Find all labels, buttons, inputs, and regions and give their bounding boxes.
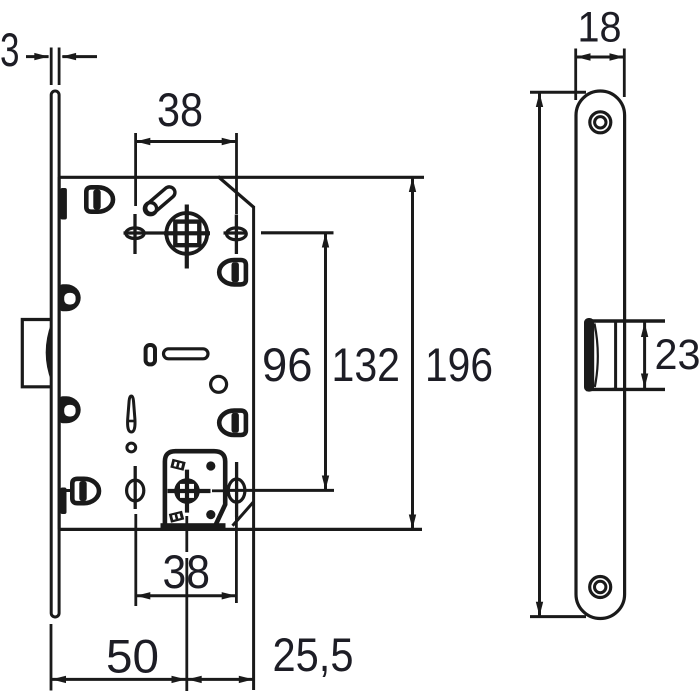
svg-text:3: 3 — [0, 24, 20, 77]
svg-text:38: 38 — [157, 84, 203, 137]
body top edge extended right (196 extension) — [59, 176, 424, 179]
follower cross vertical — [185, 470, 189, 513]
gearbox thick bottom bar — [161, 523, 226, 529]
top-right screw hole — [227, 228, 247, 240]
svg-text:25,5: 25,5 — [273, 629, 354, 682]
spindle hub cross vertical — [185, 205, 189, 269]
body chamfer top-right — [218, 177, 254, 208]
gearbox tilted screw lower — [169, 511, 184, 523]
small vertical capsule slot — [146, 345, 155, 364]
horizontal capsule slot — [164, 349, 209, 359]
spindle hub square — [175, 222, 199, 246]
banana slot: rotated oblong — [143, 185, 177, 216]
bottom row centerline through right hole + 132 extension — [228, 489, 334, 492]
teardrop slot — [128, 396, 135, 432]
svg-text:96: 96 — [262, 339, 313, 392]
body left edge (over faceplate right line) — [58, 177, 61, 529]
top screw hole outer — [590, 112, 611, 133]
half clip on left edge lower — [60, 396, 81, 423]
follower cross horizontal — [168, 489, 211, 493]
svg-text:196: 196 — [425, 339, 493, 392]
bottom-left hole vertical line — [134, 466, 137, 509]
small circle under teardrop — [127, 443, 136, 452]
svg-text:23: 23 — [655, 331, 700, 379]
top row horizontal centerline (left hole to hub) — [124, 231, 210, 234]
faceplate (side view, thin strip) — [51, 91, 59, 617]
D-clip bottom-left — [72, 479, 99, 503]
spindle hub outer circle — [166, 213, 207, 254]
latch thick left bar — [584, 318, 594, 392]
corner diagonal cut line — [233, 502, 254, 526]
body bottom edge extended right (196 extension) — [59, 528, 422, 531]
latch bolt curved face (filled crescent) — [46, 323, 52, 382]
gearbox follower (filled circle with window grid) — [174, 478, 200, 504]
svg-text:132: 132 — [332, 339, 401, 392]
bottom row: left edge spur centerline — [58, 489, 70, 492]
left edge slot bar top — [60, 188, 67, 220]
spindle hub cross horizontal (thick inside) — [164, 231, 210, 235]
top-right screw hole vertical line — [235, 215, 238, 255]
gearbox tilted screw upper — [170, 459, 185, 471]
center axis line below follower — [185, 516, 188, 552]
svg-text:18: 18 — [578, 4, 622, 52]
bottom screw hole inner — [595, 581, 606, 592]
body right edge, extended below as 25,5 extension — [252, 206, 255, 690]
bottom screw hole outer — [590, 577, 611, 598]
top-left screw hole vertical line — [133, 214, 136, 254]
D-clip right lower (mirrored) — [219, 411, 246, 435]
faceplate front (stadium) — [576, 91, 625, 619]
D-clip top-left — [86, 187, 113, 211]
svg-text:38: 38 — [163, 546, 211, 599]
unlabeled height dim (left of faceplate) — [530, 91, 586, 94]
gearbox dot upper — [206, 461, 215, 470]
bottom-right hole extension to dim (38 bottom) — [235, 517, 238, 603]
gearbox plate — [165, 451, 225, 525]
banana slot: circle end — [144, 203, 156, 215]
bottom-right screw hole — [228, 479, 245, 502]
svg-text:50: 50 — [106, 631, 159, 684]
gearbox dot lower — [206, 510, 215, 519]
latch bottom wedge — [586, 388, 615, 391]
latch curved face line — [595, 324, 598, 388]
bottom-right hole vertical line — [235, 462, 238, 517]
top-left screw hole — [126, 228, 144, 239]
half clip on left edge upper — [60, 284, 81, 311]
latch bottom line extended (23 extension) — [586, 388, 665, 391]
latch top line extended (23 extension) — [586, 319, 665, 322]
latch front right edge — [614, 321, 617, 389]
D-clip right upper (mirrored) — [219, 260, 246, 284]
plain circle hole — [211, 376, 227, 392]
centerline dash right of follower — [212, 489, 224, 492]
top screw hole inner — [595, 117, 606, 128]
bottom-left screw hole — [127, 480, 144, 501]
bottom-left hole extension to dim (38 bottom) — [134, 514, 137, 606]
left edge slot bar bottom — [60, 488, 66, 515]
top row horizontal centerline (right hole) — [224, 231, 248, 234]
teardrop chord line — [127, 420, 135, 423]
latch block protruding left — [22, 320, 51, 387]
